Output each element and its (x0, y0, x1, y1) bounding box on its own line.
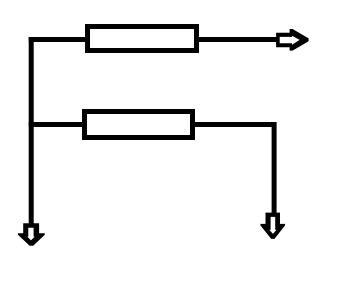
wire: left vertical bus (29, 37, 34, 225)
wire: middle horizontal (29, 122, 277, 127)
wire: top horizontal (29, 37, 279, 42)
resistor R2 (bottom box) (85, 112, 193, 138)
resistor R1 (top box) (88, 27, 197, 51)
wire: right vertical drop (272, 122, 277, 216)
arrow down (left ground) (18, 223, 45, 246)
arrow right (output, top) (276, 29, 309, 51)
arrow down (right ground) (260, 213, 285, 239)
